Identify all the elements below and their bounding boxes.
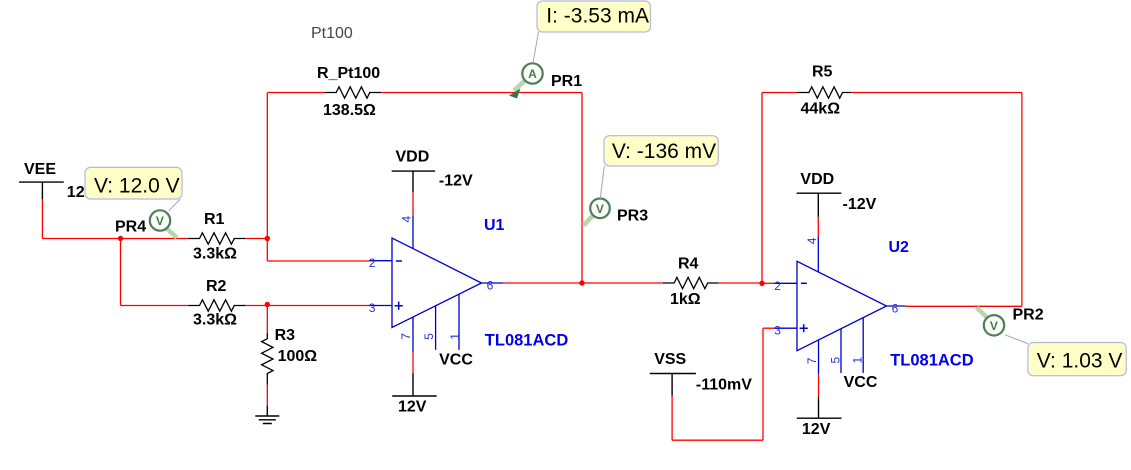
power symbol VSS: [650, 351, 752, 396]
svg-text:6: 6: [892, 302, 899, 316]
probe PR3: [584, 199, 649, 226]
callout line PR1: [533, 32, 539, 63]
svg-text:1kΩ: 1kΩ: [670, 291, 701, 308]
svg-text:V: 12.0 V: V: 12.0 V: [94, 174, 180, 197]
ground: [255, 406, 279, 424]
svg-text:V: V: [990, 319, 998, 333]
svg-text:-12V: -12V: [843, 196, 877, 213]
wire: [42, 238, 188, 240]
wire: [762, 328, 764, 440]
resistor R5: [797, 64, 851, 118]
wire: [266, 385, 268, 406]
svg-text:138.5Ω: 138.5Ω: [323, 102, 376, 119]
svg-text:5: 5: [829, 357, 843, 364]
power symbol 12V (U2 bottom): [797, 397, 842, 438]
svg-text:5: 5: [422, 333, 436, 340]
junction U2 pin2 node: [759, 281, 764, 286]
svg-text:2: 2: [774, 279, 781, 293]
resistor R4: [663, 256, 718, 308]
wire: [581, 93, 583, 284]
svg-text:R_Pt100: R_Pt100: [317, 65, 380, 82]
probe PR1: [509, 63, 582, 98]
svg-text:VDD: VDD: [800, 171, 834, 188]
callout line PR3: [600, 166, 604, 199]
wire: [762, 92, 797, 94]
power symbol VEE: [19, 161, 95, 201]
wire: [718, 282, 762, 284]
probe PR4: [115, 210, 177, 237]
svg-text:VSS: VSS: [654, 351, 686, 368]
svg-text:VCC: VCC: [844, 374, 878, 391]
measurement box PR2: [1028, 343, 1126, 376]
svg-text:R1: R1: [204, 211, 225, 228]
measurement box PR3: [604, 136, 718, 166]
junction PR4 node: [118, 236, 123, 241]
svg-text:2: 2: [369, 256, 376, 270]
power symbol VDD (U2): [797, 171, 877, 217]
wire: [763, 327, 774, 329]
wire: [817, 217, 819, 237]
wire: [267, 92, 325, 94]
svg-text:3: 3: [369, 301, 376, 315]
wire: [762, 282, 774, 284]
wire: [246, 238, 268, 240]
svg-text:U2: U2: [889, 239, 910, 256]
svg-text:12V: 12V: [802, 421, 831, 438]
svg-text:PR1: PR1: [551, 73, 582, 90]
callout line PR4: [169, 199, 181, 211]
wire: [120, 239, 122, 306]
wire: [41, 199, 43, 238]
power symbol 12V (U1 bottom): [392, 373, 437, 415]
svg-text:R4: R4: [678, 256, 699, 273]
probe PR2: [977, 307, 1044, 336]
svg-text:3: 3: [774, 324, 781, 338]
resistor R_Pt100: [317, 65, 381, 119]
measurement box PR1: [537, 1, 651, 32]
resistor R1: [188, 211, 245, 263]
wire: [381, 92, 582, 94]
wire: [503, 282, 582, 284]
op-amp U2: [774, 237, 974, 391]
wire: [267, 260, 369, 262]
measurement box PR4: [85, 167, 182, 199]
wire: [266, 93, 268, 262]
wire: [818, 374, 820, 397]
svg-text:VCC: VCC: [439, 352, 473, 369]
svg-text:1: 1: [448, 333, 462, 340]
power symbol VDD (U1): [392, 149, 473, 193]
svg-text:A: A: [528, 67, 537, 81]
svg-text:4: 4: [805, 237, 819, 244]
svg-text:Pt100: Pt100: [311, 25, 353, 42]
svg-text:7: 7: [399, 333, 413, 340]
junction U1 output node: [579, 280, 584, 285]
wire: [121, 305, 189, 307]
wire: [246, 305, 369, 307]
svg-text:3.3kΩ: 3.3kΩ: [193, 311, 237, 328]
svg-text:VEE: VEE: [24, 161, 56, 178]
op-amp U1: [369, 215, 569, 368]
svg-text:V: V: [156, 214, 164, 228]
wire: [851, 92, 1022, 94]
svg-text:V: 1.03 V: V: 1.03 V: [1037, 350, 1123, 373]
svg-text:7: 7: [805, 357, 819, 364]
svg-text:V: V: [596, 202, 604, 216]
svg-text:TL081ACD: TL081ACD: [485, 331, 569, 349]
svg-text:100Ω: 100Ω: [278, 348, 318, 365]
svg-text:V: -136 mV: V: -136 mV: [612, 140, 716, 163]
svg-text:44kΩ: 44kΩ: [801, 101, 841, 118]
wire: [412, 352, 414, 373]
wire: [412, 192, 414, 215]
wire: [266, 305, 268, 333]
svg-text:R5: R5: [812, 64, 833, 81]
svg-text:-12V: -12V: [439, 173, 473, 190]
svg-text:TL081ACD: TL081ACD: [890, 352, 974, 370]
svg-text:VDD: VDD: [396, 149, 430, 166]
junction R2/R3 node: [265, 302, 270, 307]
svg-text:PR4: PR4: [115, 218, 146, 235]
wire: [672, 439, 763, 441]
svg-text:6: 6: [487, 279, 494, 293]
wire: [1021, 93, 1023, 307]
svg-text:12V: 12V: [398, 399, 427, 416]
svg-text:U1: U1: [484, 217, 505, 234]
svg-text:I: -3.53 mA: I: -3.53 mA: [546, 4, 649, 27]
svg-text:1: 1: [851, 357, 865, 364]
svg-text:PR3: PR3: [617, 208, 648, 225]
svg-text:R3: R3: [275, 327, 296, 344]
resistor R3: [262, 327, 318, 385]
junction R1 right node: [265, 236, 270, 241]
svg-text:-110mV: -110mV: [696, 376, 752, 393]
wire: [906, 305, 1022, 307]
wire: [761, 93, 763, 284]
wire: [582, 282, 663, 284]
svg-text:PR2: PR2: [1013, 307, 1044, 324]
resistor R2: [188, 278, 245, 328]
wire: [671, 396, 673, 441]
svg-text:3.3kΩ: 3.3kΩ: [193, 246, 237, 263]
svg-text:4: 4: [400, 215, 414, 222]
svg-text:R2: R2: [206, 278, 227, 295]
callout line PR2: [1005, 335, 1028, 344]
